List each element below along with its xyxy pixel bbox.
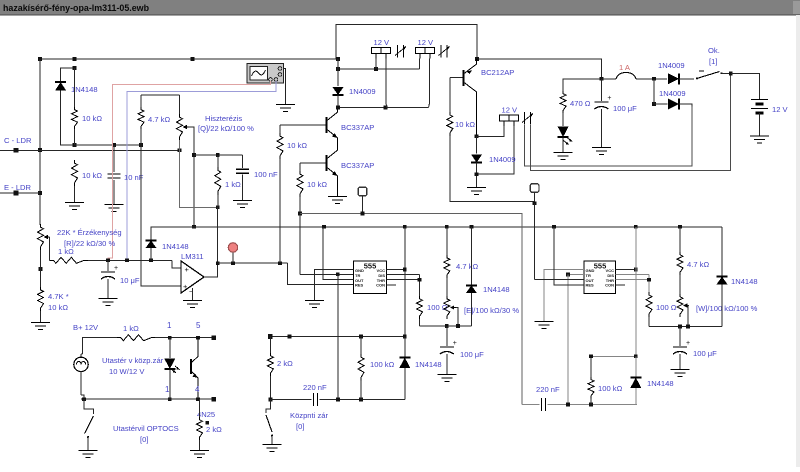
led LED1 <box>562 113 564 126</box>
resistor R9 4.7k E-branch <box>446 227 448 255</box>
optocoupler U4 4N25 led <box>169 338 171 358</box>
wire W bottom y326.6 <box>649 326 722 328</box>
ground 10nF <box>105 204 124 206</box>
node input wire junctions <box>106 258 110 262</box>
svg-text:1N4009: 1N4009 <box>349 87 376 96</box>
right scrollbar strip <box>796 15 800 467</box>
capacitor C6 220nF <box>312 393 314 406</box>
wire x338 rail to coil bus <box>337 59 339 69</box>
relay K3 contacts <box>524 112 526 125</box>
wire top link y356.3 <box>591 355 636 357</box>
wire 555-2 CON stub <box>616 284 626 286</box>
oscilloscope icon <box>247 64 284 84</box>
svg-text:1N4009: 1N4009 <box>659 89 686 98</box>
diode D6 1N4009 series <box>668 73 679 84</box>
resistor R13 4.7k W-branch <box>679 227 681 252</box>
ground C5 <box>671 369 690 371</box>
capacitor C4 100uF main <box>600 79 602 101</box>
wire to opto anode <box>155 337 214 339</box>
resistor R4 4.7K* 10k <box>40 250 42 287</box>
resistor R8 100ohm timing <box>417 296 423 319</box>
resistor R12 100ohm timer2 <box>646 292 652 317</box>
resistor R10 10k BC212 base <box>449 78 451 112</box>
ground C4 <box>592 147 611 149</box>
node TR junction 555-1 <box>336 272 340 276</box>
wire 220nF-2 net <box>522 404 539 406</box>
wire inverting input from x141 <box>141 145 181 286</box>
capacitor C7 220nF right <box>541 398 543 411</box>
transistor Q2 BC337AP lower <box>326 155 328 171</box>
svg-text:12 V: 12 V <box>502 106 519 115</box>
wire relay K2 right pin down <box>428 59 431 108</box>
svg-text:220 nF: 220 nF <box>536 385 560 394</box>
transistor Q3 BC212AP <box>463 70 465 86</box>
connector terminal T1 <box>358 187 367 196</box>
wire VCC2 riser x635.8 <box>635 227 637 356</box>
svg-text:10 kΩ: 10 kΩ <box>82 114 102 123</box>
ground R15 <box>190 450 209 452</box>
wire bottom-mid top y336.5 <box>270 336 404 338</box>
potentiometer Q hysteresis 22k <box>179 95 181 114</box>
svg-text:22K * Érzékenység: 22K * Érzékenység <box>57 228 122 237</box>
ground LED1 <box>554 152 573 154</box>
wire 555-1 GND pin to ground <box>314 270 353 301</box>
wire 555-2 GND to ground <box>544 270 584 322</box>
svg-text:[Q]/22 kΩ/100 %: [Q]/22 kΩ/100 % <box>198 124 254 133</box>
ground scope <box>276 104 295 106</box>
wire collector rail y107.5 <box>338 107 429 109</box>
svg-text:+: + <box>114 265 118 272</box>
svg-text:1 kΩ: 1 kΩ <box>225 180 241 189</box>
ground E-cap <box>437 374 456 376</box>
ground 100nF <box>233 200 252 202</box>
wire mid rail y226.8 <box>150 226 722 228</box>
svg-text:100 kΩ: 100 kΩ <box>598 384 623 393</box>
svg-text:[0]: [0] <box>296 422 304 431</box>
svg-text:Hiszterézis: Hiszterézis <box>205 114 242 123</box>
transistor Q1 BC337AP upper <box>326 117 328 133</box>
node top rail junctions <box>38 57 42 61</box>
svg-text:1N4148: 1N4148 <box>483 285 510 294</box>
svg-text:100 nF: 100 nF <box>254 170 278 179</box>
resistor R14 1k horizontal <box>117 335 155 341</box>
wire 555-1 CON stub <box>387 284 397 286</box>
svg-text:100 μF: 100 μF <box>693 349 717 358</box>
title bar <box>0 0 800 15</box>
resistor R19 1k divider <box>217 155 219 167</box>
capacitor C8 100nF <box>242 155 244 168</box>
svg-text:12 V: 12 V <box>772 105 789 114</box>
svg-text:[W]/100 kΩ/100 %: [W]/100 kΩ/100 % <box>696 304 758 313</box>
svg-text:100 μF: 100 μF <box>613 104 637 113</box>
svg-text:1 kΩ: 1 kΩ <box>123 324 139 333</box>
wire VCC riser x404.8 <box>404 227 406 337</box>
svg-text:BC337AP: BC337AP <box>341 161 374 170</box>
svg-text:+: + <box>453 340 457 347</box>
node mid rail junctions <box>322 225 326 229</box>
svg-text:4: 4 <box>195 385 200 394</box>
node pot bottom <box>39 267 43 271</box>
svg-text:−: − <box>189 287 194 296</box>
potentiometer W 100k <box>679 275 681 294</box>
node bottom-mid left <box>269 398 273 402</box>
resistor R11 470ohm <box>563 79 601 91</box>
diode D3 1N4148 E-branch <box>470 227 472 285</box>
diode D1 1N4148 bypass <box>61 68 75 81</box>
svg-text:1: 1 <box>165 385 170 394</box>
svg-text:470 Ω: 470 Ω <box>570 99 591 108</box>
wire cap to diode corner <box>319 399 404 401</box>
resistor R16 2k <box>269 337 271 354</box>
node output riser junctions <box>216 261 220 265</box>
wire 555-1 VCC pin <box>387 269 405 271</box>
svg-text:10 kΩ: 10 kΩ <box>48 303 68 312</box>
resistor R2 10k lower <box>72 160 78 186</box>
wire RES riser x287 <box>287 263 353 284</box>
svg-text:2 kΩ: 2 kΩ <box>277 359 293 368</box>
svg-text:555: 555 <box>364 262 377 271</box>
svg-text:BC337AP: BC337AP <box>341 123 374 132</box>
wire divider top y155 <box>194 154 243 156</box>
optocoupler U4 4N25 phototransistor <box>190 359 192 374</box>
svg-text:10 W/12 V: 10 W/12 V <box>109 367 145 376</box>
svg-text:1N4009: 1N4009 <box>489 155 516 164</box>
svg-text:B+ 12V: B+ 12V <box>73 323 99 332</box>
red probe node indicator <box>232 252 234 263</box>
svg-text:E - LDR: E - LDR <box>4 183 32 192</box>
wire 555-2 OUT <box>535 279 584 281</box>
wire 555-2 VCC <box>616 269 636 271</box>
relay K2 contacts <box>440 45 442 58</box>
diode D4 1N4009 flyback <box>337 69 339 86</box>
svg-text:hazakísérő-fény-opa-lm311-05.e: hazakísérő-fény-opa-lm311-05.ewb <box>3 3 150 13</box>
wire 555-2 DIS THR join <box>616 273 650 275</box>
svg-text:[0]: [0] <box>140 435 148 444</box>
wire y78.8 to fuse <box>601 78 616 80</box>
wire TR column x300 <box>299 214 301 275</box>
wire BC337-2 base <box>300 162 327 164</box>
wire top rail y59 <box>40 58 336 60</box>
wire bottom-mid y399.5 <box>270 399 311 401</box>
svg-text:1N4148: 1N4148 <box>162 242 189 251</box>
ground 555-2 <box>535 321 554 323</box>
ground 555-1 <box>305 300 324 302</box>
resistor R7 10k BC337-2 base <box>299 163 301 171</box>
diode D8 1N4148 W-branch <box>721 227 723 276</box>
svg-text:[E]/100 kΩ/30 %: [E]/100 kΩ/30 % <box>464 306 519 315</box>
svg-text:100 μF: 100 μF <box>460 350 484 359</box>
svg-text:C - LDR: C - LDR <box>4 136 32 145</box>
wire scope channel A pink <box>108 81 271 260</box>
svg-text:2 kΩ: 2 kΩ <box>206 425 222 434</box>
svg-text:CON: CON <box>605 283 614 288</box>
diode D5 1N4009 BC212 <box>476 136 478 153</box>
wire BC337-1 base <box>280 124 327 126</box>
connector terminal T2 <box>530 184 539 193</box>
wire K3 contact right to battery net <box>531 73 731 170</box>
wire relay K1 left pin <box>375 59 377 69</box>
svg-text:4.7K *: 4.7K * <box>48 292 69 301</box>
svg-text:1: 1 <box>167 321 172 330</box>
wire left vertical x40 <box>39 59 41 225</box>
svg-text:1N4148: 1N4148 <box>731 277 758 286</box>
wire 555-1 DIS THR join <box>387 273 420 275</box>
battery B1 12V <box>751 99 768 101</box>
svg-text:4.7 kΩ: 4.7 kΩ <box>687 260 709 269</box>
diode D10 1N4148 bottom-right <box>635 356 637 377</box>
wire E-LDR stub <box>0 192 40 194</box>
wire D7 to relay contact net <box>679 104 692 107</box>
svg-text:4.7 kΩ: 4.7 kΩ <box>148 115 170 124</box>
diode D2 1N4148 clamp <box>150 227 152 240</box>
ground op-amp <box>192 288 194 300</box>
ic U2 555 timer 1 <box>354 261 387 294</box>
wire top rail right segment to fuse corner <box>477 59 601 79</box>
svg-text:100 Ω: 100 Ω <box>427 303 448 312</box>
wire K3 left pin <box>477 126 504 136</box>
capacitor C2 10uF <box>107 260 109 271</box>
wire E-branch bottom y325.9 <box>420 325 472 327</box>
svg-text:RES: RES <box>355 283 364 288</box>
wire pot bottom to 1k node <box>180 140 218 207</box>
node switch output <box>729 72 733 76</box>
potentiometer R 22K sensitivity <box>38 224 44 250</box>
ground S2 <box>79 450 98 452</box>
wire coil bus y68.9 <box>338 68 420 70</box>
wire K3 contact left to lamp relay net <box>525 107 692 166</box>
svg-text:12 V: 12 V <box>374 38 391 47</box>
svg-text:+: + <box>183 282 188 291</box>
wire 555-1 OUT pin <box>323 227 354 280</box>
ground battery <box>750 135 769 137</box>
wire relay K2 left pin <box>419 59 421 69</box>
diode D7 1N4009 lamp feed <box>652 102 656 106</box>
wire op-amp output <box>204 207 218 277</box>
node 1k-top <box>216 205 220 209</box>
resistor R6 10k BC337 base <box>279 125 281 133</box>
wire TR2 riser down <box>567 274 569 404</box>
svg-text:10 kΩ: 10 kΩ <box>455 120 475 129</box>
resistor R5 1k horizontal <box>50 257 89 263</box>
wire scope channel B blue <box>127 81 276 260</box>
wire fuse to diode <box>636 78 667 80</box>
svg-text:[1]: [1] <box>709 57 717 66</box>
switch S1 Ok <box>699 70 704 72</box>
svg-text:RES: RES <box>586 283 595 288</box>
potentiometer E 100k <box>446 278 448 296</box>
svg-text:10 μF: 10 μF <box>120 276 140 285</box>
resistor R3 4.7k <box>140 95 142 107</box>
svg-text:Közpnti zár: Közpnti zár <box>290 411 328 420</box>
ground 10uF <box>99 298 118 300</box>
svg-text:1N4009: 1N4009 <box>658 61 685 70</box>
capacitor C5 100uF W-branch <box>679 327 681 346</box>
wire TR riser down x337.8 <box>337 274 339 399</box>
svg-text:4.7 kΩ: 4.7 kΩ <box>456 262 478 271</box>
fuse F1 1A <box>616 73 636 79</box>
wire rail vertical to relay box top <box>336 25 477 60</box>
svg-text:1 A: 1 A <box>619 63 631 72</box>
lamp L1 cabin light <box>74 357 88 371</box>
resistor R1 10k upper <box>74 68 76 107</box>
svg-text:12 V: 12 V <box>418 38 435 47</box>
svg-text:CON: CON <box>376 283 385 288</box>
wire opto bottom y399.2 <box>81 398 214 400</box>
ground BC212 branch <box>467 187 486 189</box>
ground lower-left R2 <box>65 202 84 204</box>
resistor R17 100k <box>358 354 364 381</box>
capacitor C3 100uF E-branch <box>446 326 448 346</box>
svg-text:100 kΩ: 100 kΩ <box>370 360 395 369</box>
svg-text:5: 5 <box>196 321 201 330</box>
node fuse line left <box>600 77 604 81</box>
resistor R18 100k right <box>590 356 592 377</box>
wire OUT2 riser x534.6 <box>534 203 536 279</box>
wire C7 to D10 <box>548 404 638 406</box>
node BC212 collector-relay3 <box>475 134 479 138</box>
svg-text:+: + <box>686 340 690 347</box>
svg-text:1 kΩ: 1 kΩ <box>58 247 74 256</box>
wire relay K1 right pin down <box>385 59 388 108</box>
node BC337 collector top <box>336 106 340 110</box>
svg-text:10 kΩ: 10 kΩ <box>82 171 102 180</box>
relay K1 contacts <box>397 45 399 58</box>
node wiper junctions <box>192 153 196 157</box>
node C-LDR junction <box>38 148 42 152</box>
switch S3 Kozponti zar <box>266 400 270 414</box>
svg-text:+: + <box>607 95 611 102</box>
svg-text:1N4148: 1N4148 <box>647 379 674 388</box>
svg-text:100 Ω: 100 Ω <box>656 303 677 312</box>
svg-text:10 kΩ: 10 kΩ <box>287 141 307 150</box>
resistor R15 2k emitter <box>199 399 201 417</box>
node OUT2 riser top <box>533 201 537 205</box>
wire C-LDR stub <box>0 149 180 151</box>
wire output node y263 <box>218 262 288 264</box>
wire diode to switch <box>679 78 694 80</box>
wire scope ground lead <box>284 69 286 105</box>
wire op-amp plus input <box>88 259 172 261</box>
capacitor C1 10nF <box>113 145 115 172</box>
svg-text:+: + <box>185 265 190 274</box>
svg-text:220 nF: 220 nF <box>303 383 327 392</box>
svg-text:1N4148: 1N4148 <box>415 360 442 369</box>
ground BC337-2 emitter <box>328 196 347 198</box>
ground S3 <box>263 444 282 446</box>
wire to battery <box>731 73 760 99</box>
ground under R4 <box>31 322 50 324</box>
svg-text:555: 555 <box>594 262 607 271</box>
svg-text:Ok.: Ok. <box>708 46 720 55</box>
svg-text:BC212AP: BC212AP <box>481 68 514 77</box>
diode D9 1N4148 bottom-mid <box>404 337 406 358</box>
wire mid node y144.7 to 4.7k <box>75 144 142 146</box>
wire K3 right pin <box>477 126 514 174</box>
node base divider to TR <box>298 212 302 216</box>
wire 555-2 RES <box>554 227 584 285</box>
svg-text:Utastérvil OPTOCS: Utastérvil OPTOCS <box>113 424 179 433</box>
switch S2 Utastervil <box>84 399 94 414</box>
ic U3 555 timer 2 <box>584 261 616 294</box>
svg-text:Utastér v közp.zár: Utastér v közp.zár <box>102 356 164 365</box>
wire mid link y213 to down-corner x522 <box>300 214 522 405</box>
svg-text:10 kΩ: 10 kΩ <box>307 180 327 189</box>
wire 555-2 TR <box>568 273 584 275</box>
wire hysteresis top link <box>141 94 180 96</box>
wire base y77.6 <box>450 77 464 79</box>
wire R10 bottom to rail <box>450 136 535 202</box>
svg-text:LM311: LM311 <box>181 252 204 261</box>
